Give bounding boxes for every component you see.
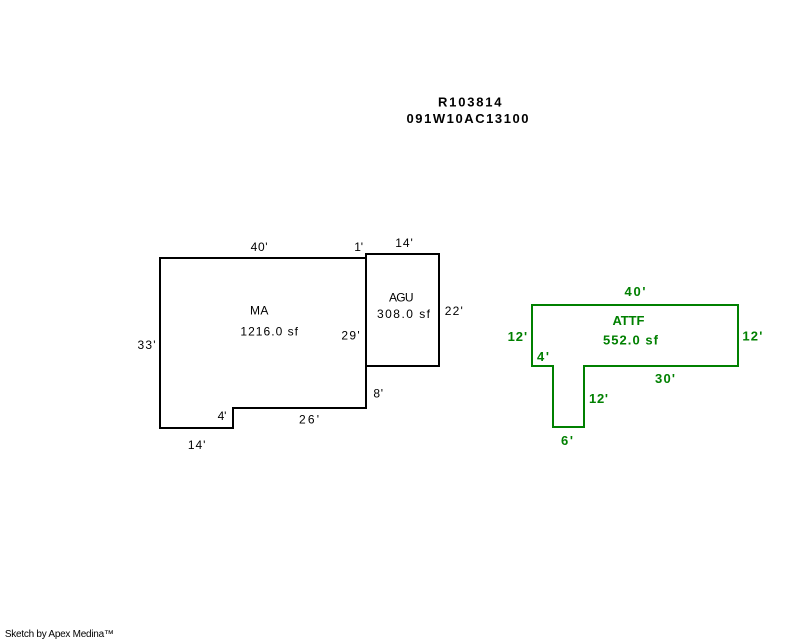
svg-text:12': 12' <box>589 391 608 406</box>
area MA outline (main area polygon) <box>160 258 366 428</box>
svg-text:12': 12' <box>742 329 762 344</box>
svg-text:Sketch by Apex Medina™: Sketch by Apex Medina™ <box>5 629 114 640</box>
svg-text:26': 26' <box>299 413 319 427</box>
svg-text:40': 40' <box>251 240 268 254</box>
svg-text:30': 30' <box>655 371 675 386</box>
svg-text:8': 8' <box>373 387 383 401</box>
area ATTF outline (green polygon) <box>532 305 738 427</box>
svg-text:091W10AC13100: 091W10AC13100 <box>407 111 529 126</box>
svg-text:1': 1' <box>354 240 363 254</box>
svg-text:R103814: R103814 <box>438 95 502 110</box>
svg-text:6': 6' <box>561 433 573 448</box>
svg-text:308.0 sf: 308.0 sf <box>377 307 431 321</box>
svg-text:14': 14' <box>188 438 206 452</box>
svg-text:33': 33' <box>138 338 156 352</box>
svg-text:552.0 sf: 552.0 sf <box>603 333 659 348</box>
svg-text:4': 4' <box>218 409 227 423</box>
svg-text:22': 22' <box>445 304 463 318</box>
svg-text:MA: MA <box>250 304 268 318</box>
svg-text:ATTF: ATTF <box>613 313 645 328</box>
svg-text:4': 4' <box>537 349 549 364</box>
svg-text:AGU: AGU <box>389 291 414 305</box>
svg-text:29': 29' <box>341 329 359 343</box>
svg-text:12': 12' <box>508 329 527 344</box>
area AGU outline (attached garage rectangle) <box>366 254 439 366</box>
svg-text:40': 40' <box>625 284 646 299</box>
svg-text:1216.0 sf: 1216.0 sf <box>240 325 298 339</box>
svg-text:14': 14' <box>395 236 413 250</box>
